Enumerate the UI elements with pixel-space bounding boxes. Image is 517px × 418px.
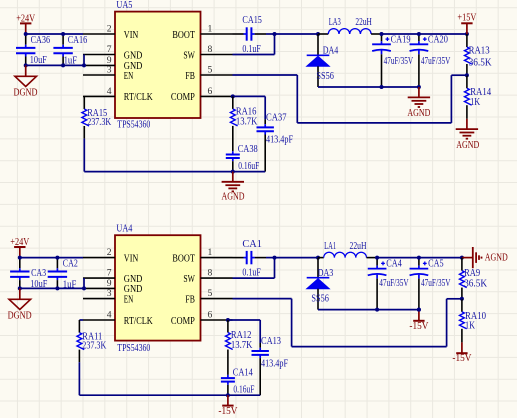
svg-text:+24V: +24V — [10, 237, 30, 248]
svg-text:1: 1 — [208, 247, 213, 258]
svg-text:-15V: -15V — [452, 353, 472, 364]
svg-text:LA1: LA1 — [324, 241, 336, 252]
svg-text:5: 5 — [208, 64, 213, 75]
svg-text:SW: SW — [183, 50, 195, 61]
svg-text:TPS54360: TPS54360 — [117, 120, 150, 131]
svg-text:1K: 1K — [465, 320, 476, 331]
svg-text:DGND: DGND — [14, 88, 38, 99]
svg-text:BOOT: BOOT — [172, 30, 195, 41]
svg-text:10uF: 10uF — [30, 279, 47, 290]
svg-text:4: 4 — [107, 86, 112, 97]
svg-text:0.1uF: 0.1uF — [242, 44, 261, 55]
svg-text:CA16: CA16 — [68, 35, 88, 46]
svg-text:1uF: 1uF — [63, 280, 77, 291]
svg-text:4: 4 — [107, 309, 112, 320]
svg-text:22uH: 22uH — [355, 17, 372, 28]
svg-text:SS56: SS56 — [316, 71, 334, 82]
svg-text:CA15: CA15 — [242, 15, 262, 26]
svg-text:CA36: CA36 — [31, 35, 50, 46]
svg-text:237.3K: 237.3K — [82, 340, 107, 351]
svg-text:5: 5 — [208, 288, 213, 299]
svg-text:6: 6 — [208, 309, 213, 320]
svg-text:LA3: LA3 — [329, 17, 341, 28]
svg-text:COMP: COMP — [171, 316, 195, 327]
svg-text:13.7K: 13.7K — [231, 340, 253, 351]
svg-text:7: 7 — [107, 44, 112, 55]
svg-text:3: 3 — [107, 288, 112, 299]
svg-text:CA1: CA1 — [242, 239, 262, 250]
svg-text:CA20: CA20 — [428, 35, 448, 46]
svg-text:8: 8 — [208, 44, 213, 55]
svg-text:CA19: CA19 — [391, 35, 411, 46]
svg-text:AGND: AGND — [456, 140, 479, 151]
svg-text:36.5K: 36.5K — [469, 58, 493, 69]
svg-text:3: 3 — [107, 64, 112, 75]
svg-text:VIN: VIN — [124, 30, 139, 41]
svg-text:413.4pF: 413.4pF — [266, 135, 293, 146]
svg-text:TPS54360: TPS54360 — [117, 343, 150, 354]
svg-text:AGND: AGND — [407, 108, 430, 119]
svg-text:DA4: DA4 — [323, 46, 339, 57]
svg-text:FB: FB — [185, 294, 195, 305]
svg-text:22uH: 22uH — [350, 241, 367, 252]
svg-text:1uF: 1uF — [64, 55, 78, 66]
svg-text:CA37: CA37 — [266, 112, 287, 123]
svg-text:2: 2 — [107, 247, 112, 258]
svg-text:DGND: DGND — [8, 311, 32, 322]
svg-text:CA4: CA4 — [386, 258, 402, 269]
svg-text:DA3: DA3 — [318, 268, 334, 279]
svg-text:AGND: AGND — [485, 252, 508, 263]
svg-text:6: 6 — [208, 86, 213, 97]
svg-text:13.7K: 13.7K — [236, 117, 258, 128]
svg-text:CA13: CA13 — [261, 336, 281, 347]
svg-text:BOOT: BOOT — [172, 253, 195, 264]
svg-text:CA3: CA3 — [31, 268, 46, 279]
svg-text:EN: EN — [124, 294, 134, 305]
svg-text:0.16uF: 0.16uF — [233, 385, 254, 396]
svg-text:EN: EN — [124, 71, 134, 82]
svg-text:SW: SW — [183, 274, 195, 285]
svg-text:0.16uF: 0.16uF — [238, 161, 259, 172]
svg-text:237.3K: 237.3K — [87, 117, 112, 128]
svg-text:RA13: RA13 — [469, 46, 490, 57]
svg-text:1: 1 — [208, 23, 213, 34]
svg-text:UA4: UA4 — [116, 224, 132, 235]
svg-text:-15V: -15V — [218, 406, 238, 417]
svg-text:10uF: 10uF — [30, 55, 47, 66]
svg-text:FB: FB — [185, 71, 195, 82]
svg-text:1K: 1K — [470, 97, 481, 108]
svg-text:2: 2 — [107, 23, 112, 34]
svg-text:-15V: -15V — [409, 321, 429, 332]
svg-text:47uF/35V: 47uF/35V — [421, 278, 451, 289]
svg-text:+24V: +24V — [16, 14, 36, 25]
svg-text:CA38: CA38 — [238, 144, 258, 155]
svg-text:47uF/35V: 47uF/35V — [421, 56, 451, 67]
svg-text:RT/CLK: RT/CLK — [124, 92, 153, 103]
svg-text:8: 8 — [208, 268, 213, 279]
svg-text:47uF/35V: 47uF/35V — [379, 278, 409, 289]
svg-text:36.5K: 36.5K — [464, 278, 488, 289]
svg-text:GND: GND — [124, 50, 143, 61]
svg-text:CA14: CA14 — [233, 368, 253, 379]
svg-text:0.1uF: 0.1uF — [242, 268, 261, 279]
svg-text:413.4pF: 413.4pF — [261, 358, 288, 369]
svg-text:VIN: VIN — [124, 253, 139, 264]
svg-text:CA5: CA5 — [428, 258, 444, 269]
svg-text:47uF/35V: 47uF/35V — [384, 56, 414, 67]
svg-text:AGND: AGND — [222, 191, 245, 202]
svg-text:RT/CLK: RT/CLK — [124, 316, 153, 327]
svg-text:COMP: COMP — [171, 92, 195, 103]
svg-text:CA2: CA2 — [63, 259, 78, 270]
svg-text:UA5: UA5 — [116, 0, 132, 11]
svg-text:SS56: SS56 — [311, 294, 329, 305]
svg-text:+15V: +15V — [457, 12, 477, 23]
